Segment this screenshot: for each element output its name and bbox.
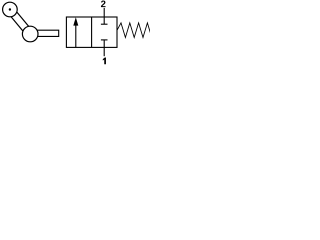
- position divider: [91, 17, 93, 47]
- return spring: [117, 23, 152, 38]
- flow path arrow (left box): [73, 17, 78, 47]
- roller axle dot: [9, 8, 11, 10]
- roller circle: [3, 2, 18, 17]
- valve body (2 position boxes): [66, 17, 117, 47]
- lever arm (two parallel links): [7, 7, 33, 36]
- port 1 line: [103, 40, 105, 56]
- pivot circle: [22, 26, 38, 42]
- port 2 line: [103, 8, 105, 24]
- port label 2: [101, 1, 106, 8]
- blocked port 2 bar: [101, 23, 108, 25]
- port label 1: [103, 58, 106, 65]
- plunger rod: [34, 30, 59, 36]
- blocked port 1 bar: [101, 39, 108, 41]
